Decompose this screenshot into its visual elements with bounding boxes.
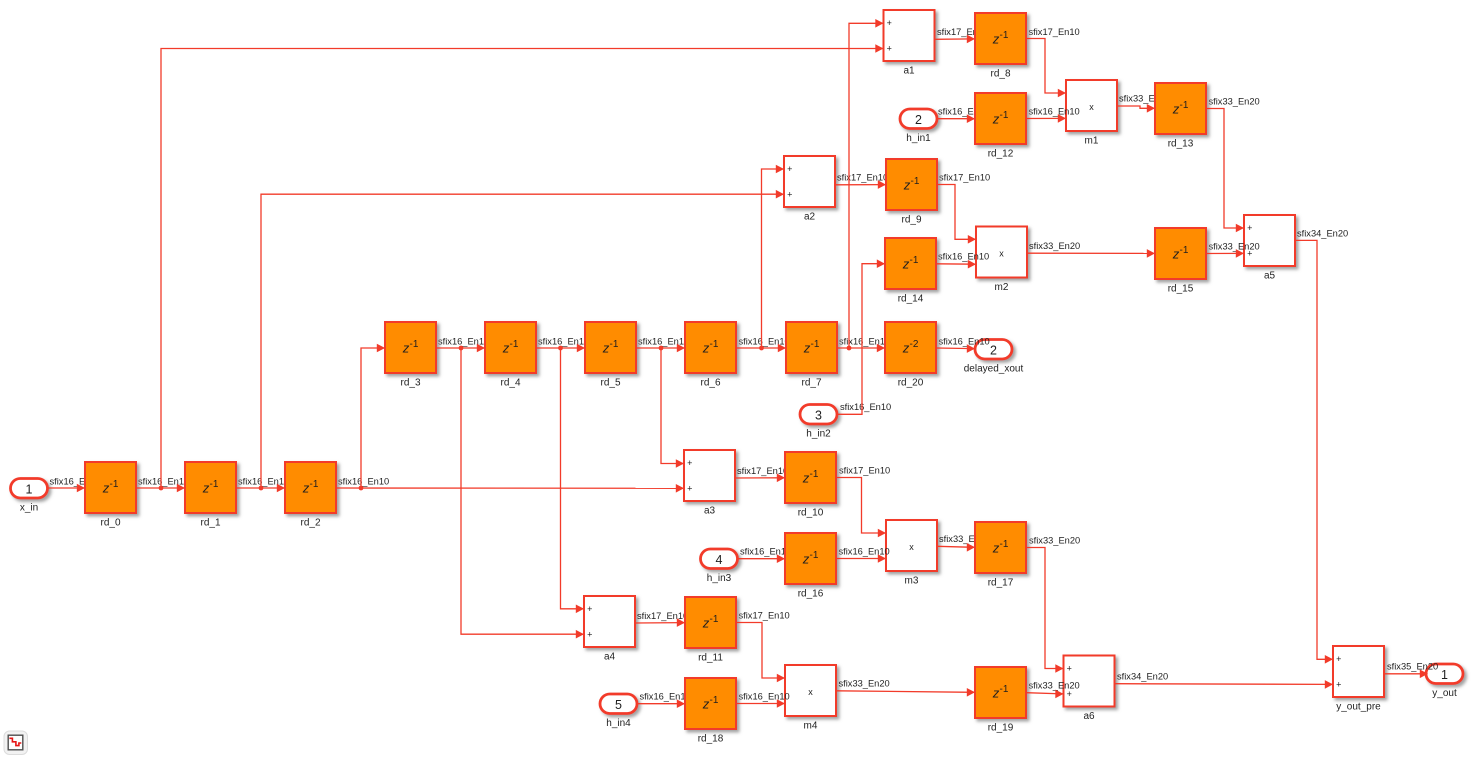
svg-text:z: z	[502, 340, 510, 355]
signal label sfix16_En10 (rd_12 out)	[1029, 107, 1080, 117]
svg-text:z: z	[1172, 101, 1180, 116]
wire x_in to rd_0	[48, 484, 86, 493]
sum block a6	[1064, 656, 1115, 723]
delay block rd_15 (z^-1)	[1155, 228, 1206, 295]
svg-text:-1: -1	[710, 339, 719, 350]
junction rd_4 out	[558, 346, 563, 351]
svg-text:sfix33_En20: sfix33_En20	[1209, 97, 1260, 107]
svg-text:sfix17_En10: sfix17_En10	[837, 173, 888, 183]
svg-text:-1: -1	[811, 339, 820, 350]
svg-text:sfix17_En10: sfix17_En10	[1029, 27, 1080, 37]
wire tap rd_0 out to a1 in2	[161, 44, 884, 488]
signal label sfix16_En10 (h_in1 out)	[938, 107, 989, 117]
signal label sfix33_En20 (rd_15 out)	[1209, 241, 1260, 251]
svg-text:sfix16_En10: sfix16_En10	[938, 252, 989, 262]
signal label sfix16_En10 (rd_0 out)	[138, 476, 189, 486]
svg-text:sfix16_En10: sfix16_En10	[238, 476, 289, 486]
sum block y_out_pre	[1333, 646, 1384, 713]
delay block rd_10 (z^-1)	[785, 452, 836, 519]
product block m1	[1066, 80, 1117, 147]
sum block a3	[684, 450, 735, 517]
wire rd_11 to m4 in1	[736, 623, 785, 683]
wire rd_20 to delayed_xout	[936, 344, 975, 353]
delay block rd_8 (z^-1)	[975, 13, 1026, 80]
junction rd_1 out	[259, 486, 264, 491]
svg-text:-1: -1	[1180, 245, 1189, 256]
junction rd_7 out	[847, 346, 852, 351]
svg-text:z: z	[702, 340, 710, 355]
wire tap rd_6 out to a2 in1	[762, 165, 785, 348]
svg-text:m3: m3	[905, 576, 919, 587]
sum block a2	[784, 156, 835, 223]
svg-text:sfix16_En10: sfix16_En10	[839, 546, 890, 556]
svg-text:sfix34_En20: sfix34_En20	[1297, 228, 1348, 238]
svg-text:m2: m2	[995, 282, 1009, 293]
wire m1 to rd_13	[1117, 104, 1155, 113]
wire tap rd_5 out to a3 in1	[661, 348, 684, 468]
svg-text:+: +	[1067, 689, 1072, 699]
svg-text:rd_5: rd_5	[600, 378, 620, 389]
wire rd_13 to a5 in1	[1206, 109, 1244, 233]
delay block rd_9 (z^-1)	[886, 159, 937, 226]
sample time legend button	[4, 731, 28, 755]
svg-text:5: 5	[615, 698, 622, 712]
output port 1 y_out	[1426, 664, 1463, 699]
wire a2 to rd_9	[835, 180, 886, 189]
svg-text:sfix16_En10: sfix16_En10	[939, 336, 990, 346]
signal label sfix33_En20 (m4 out)	[839, 678, 890, 688]
delay block rd_20 (z^-2)	[885, 322, 936, 389]
wire a4 to rd_11	[635, 618, 685, 627]
svg-text:z: z	[802, 551, 810, 566]
wire rd_18 to m4 in2	[736, 699, 785, 708]
svg-text:z: z	[202, 480, 210, 495]
product block m4	[785, 665, 836, 732]
delay block rd_1 (z^-1)	[185, 462, 236, 529]
svg-text:sfix35_En20: sfix35_En20	[1387, 662, 1438, 672]
svg-text:sfix16_En10: sfix16_En10	[839, 336, 890, 346]
svg-text:sfix17_En10: sfix17_En10	[739, 610, 790, 620]
wire rd_16 to m3 in2	[836, 554, 886, 563]
svg-text:sfix16_En10: sfix16_En10	[338, 476, 389, 486]
signal label sfix16_En10 (rd_16 out)	[839, 546, 890, 556]
svg-text:-1: -1	[1000, 110, 1009, 121]
wire tap rd_1 out to a2 in2	[261, 190, 784, 488]
delay block rd_16 (z^-1)	[785, 533, 836, 600]
signal label sfix17_En10 (rd_9 out)	[939, 172, 990, 182]
svg-text:z: z	[902, 256, 910, 271]
svg-text:rd_11: rd_11	[698, 653, 723, 664]
wire rd_14 to m2 in2	[936, 260, 976, 269]
svg-text:sfix33_En20: sfix33_En20	[1029, 535, 1080, 545]
svg-text:-1: -1	[911, 176, 920, 187]
wire rd_8 to m1 in1	[1026, 39, 1066, 98]
wire a5 to y_out_pre in1	[1295, 240, 1333, 663]
signal label sfix33_En20 (rd_19 out)	[1029, 680, 1080, 690]
delay block rd_12 (z^-1)	[975, 93, 1026, 160]
input port 1 x_in	[11, 479, 48, 514]
svg-text:z: z	[803, 340, 811, 355]
sum block a5	[1244, 215, 1295, 282]
signal label sfix16_En10 (rd_1 out)	[238, 476, 289, 486]
svg-text:rd_8: rd_8	[990, 69, 1010, 80]
svg-text:z: z	[903, 177, 911, 192]
wire m2 to rd_15	[1027, 249, 1155, 258]
svg-text:z: z	[992, 31, 1000, 46]
svg-text:-1: -1	[710, 614, 719, 625]
delay block rd_17 (z^-1)	[975, 522, 1026, 589]
svg-text:sfix17_En10: sfix17_En10	[939, 172, 990, 182]
signal label sfix33_En20 (m1 out)	[1119, 93, 1170, 103]
svg-text:sfix33_En20: sfix33_En20	[839, 678, 890, 688]
wire rd_17 to a6 in1	[1026, 548, 1064, 673]
signal label sfix16_En10 (rd_20 out)	[939, 336, 990, 346]
svg-text:+: +	[1067, 664, 1072, 674]
svg-text:-2: -2	[910, 339, 919, 350]
wire rd_12 to m1 in2	[1026, 114, 1066, 123]
wire h_in4 to rd_18	[638, 699, 686, 708]
svg-text:x: x	[999, 249, 1004, 259]
input port 3 h_in2	[800, 405, 837, 440]
signal label sfix16_En10 (h_in3 out)	[740, 547, 791, 557]
wire m4 to rd_19	[836, 688, 975, 697]
svg-text:a3: a3	[704, 506, 716, 517]
svg-text:rd_7: rd_7	[801, 378, 821, 389]
delay block rd_14 (z^-1)	[885, 238, 936, 305]
input port 4 h_in3	[701, 549, 738, 584]
wire a6 to y_out_pre in2	[1115, 680, 1334, 689]
svg-text:sfix33_En20: sfix33_En20	[1029, 680, 1080, 690]
svg-text:z: z	[702, 615, 710, 630]
delay block rd_6 (z^-1)	[685, 322, 736, 389]
sum block a4	[584, 596, 635, 663]
delay block rd_19 (z^-1)	[975, 667, 1026, 734]
svg-text:sfix16_En10: sfix16_En10	[138, 476, 189, 486]
svg-text:rd_0: rd_0	[100, 518, 120, 529]
svg-text:sfix17_En10: sfix17_En10	[839, 465, 890, 475]
wire rd_9 to m2 in1	[937, 185, 976, 244]
junction rd_2 out	[359, 486, 364, 491]
signal label sfix17_En10 (a4 out)	[637, 611, 688, 621]
wire rd_10 to m3 in1	[836, 478, 886, 538]
junction rd_3 out	[459, 346, 464, 351]
signal label sfix16_En10 (x_in out)	[50, 476, 101, 486]
svg-text:-1: -1	[1000, 539, 1009, 550]
wire rd_2 to a3 in2	[336, 484, 684, 493]
delay block rd_3 (z^-1)	[385, 322, 436, 389]
svg-text:h_in4: h_in4	[606, 718, 631, 729]
junction rd_6 out	[759, 346, 764, 351]
wire a1 to rd_8	[935, 35, 975, 44]
svg-text:+: +	[587, 604, 592, 614]
delay block rd_18 (z^-1)	[685, 678, 736, 745]
svg-text:rd_19: rd_19	[988, 723, 1014, 734]
svg-text:x: x	[909, 542, 914, 552]
svg-text:-1: -1	[710, 695, 719, 706]
wire h_in1 to rd_12	[938, 114, 976, 123]
svg-text:rd_6: rd_6	[700, 378, 720, 389]
svg-text:-1: -1	[410, 339, 419, 350]
svg-text:rd_3: rd_3	[400, 378, 420, 389]
svg-text:sfix16_En10: sfix16_En10	[739, 691, 790, 701]
signal label sfix16_En10 (rd_3 out)	[438, 336, 489, 346]
svg-text:-1: -1	[910, 255, 919, 266]
wire y_out_pre to y_out	[1384, 670, 1428, 679]
svg-text:+: +	[887, 44, 892, 54]
svg-text:rd_4: rd_4	[500, 378, 520, 389]
svg-text:z: z	[602, 340, 610, 355]
delay block rd_4 (z^-1)	[485, 322, 536, 389]
svg-text:sfix16_En10: sfix16_En10	[640, 692, 691, 702]
signal label sfix35_En20 (y_out_pre out)	[1387, 662, 1438, 672]
sum block a1	[884, 10, 935, 77]
wire rd_0 to rd_1	[136, 484, 185, 493]
svg-text:h_in2: h_in2	[806, 428, 831, 439]
wire tap rd_4 out to a4 in1	[561, 348, 585, 613]
svg-text:+: +	[887, 18, 892, 28]
wire rd_15 to a5 in2	[1206, 249, 1244, 258]
signal label sfix16_En10 (rd_18 out)	[739, 691, 790, 701]
delay block rd_13 (z^-1)	[1155, 83, 1206, 150]
wire rd_5 to rd_6	[636, 344, 685, 353]
svg-text:-1: -1	[1180, 100, 1189, 111]
svg-text:+: +	[1336, 680, 1341, 690]
svg-text:rd_1: rd_1	[200, 518, 220, 529]
signal label sfix17_En10 (rd_10 out)	[839, 465, 890, 475]
wire h_in3 to rd_16	[738, 554, 785, 563]
output port 2 delayed_xout	[964, 340, 1024, 375]
svg-text:-1: -1	[510, 339, 519, 350]
svg-text:1: 1	[26, 482, 33, 496]
delay block rd_11 (z^-1)	[685, 597, 736, 664]
wire tap rd_2 out to rd_3 in	[361, 344, 385, 488]
svg-text:z: z	[702, 696, 710, 711]
svg-text:sfix16_En10: sfix16_En10	[740, 547, 791, 557]
signal label sfix34_En20 (a5 out)	[1297, 228, 1348, 238]
svg-text:+: +	[587, 630, 592, 640]
svg-text:-1: -1	[310, 479, 319, 490]
svg-text:-1: -1	[1000, 30, 1009, 41]
svg-text:1: 1	[1441, 668, 1448, 682]
svg-text:a5: a5	[1264, 271, 1276, 282]
svg-text:rd_13: rd_13	[1168, 139, 1194, 150]
signal label sfix17_En10 (a1 out)	[937, 27, 988, 37]
svg-text:sfix16_En10: sfix16_En10	[538, 336, 589, 346]
svg-text:sfix16_En10: sfix16_En10	[1029, 107, 1080, 117]
svg-text:sfix16_En10: sfix16_En10	[438, 336, 489, 346]
svg-text:rd_15: rd_15	[1168, 284, 1194, 295]
junction rd_0 out	[159, 486, 164, 491]
svg-text:y_out_pre: y_out_pre	[1336, 702, 1381, 713]
svg-text:x: x	[808, 687, 813, 697]
svg-text:rd_16: rd_16	[798, 589, 824, 600]
svg-text:sfix16_En10: sfix16_En10	[739, 336, 790, 346]
svg-text:a2: a2	[804, 212, 816, 223]
wire h_in2 to rd_14	[838, 259, 886, 414]
svg-text:+: +	[1247, 223, 1252, 233]
svg-text:sfix34_En20: sfix34_En20	[1117, 672, 1168, 682]
svg-text:z: z	[302, 480, 310, 495]
svg-text:y_out: y_out	[1432, 688, 1457, 699]
signal label sfix16_En10 (rd_2 out)	[338, 476, 389, 486]
svg-text:-1: -1	[810, 550, 819, 561]
wire rd_7 to rd_20	[837, 344, 885, 353]
product block m2	[976, 227, 1027, 294]
signal label sfix17_En10 (rd_8 out)	[1029, 27, 1080, 37]
svg-text:z: z	[902, 340, 910, 355]
junction rd_5 out	[659, 346, 664, 351]
svg-text:+: +	[687, 484, 692, 494]
signal label sfix33_En20 (rd_13 out)	[1209, 97, 1260, 107]
delay block rd_7 (z^-1)	[786, 322, 837, 389]
svg-text:-1: -1	[810, 469, 819, 480]
svg-text:z: z	[402, 340, 410, 355]
wire rd_4 to rd_5	[536, 344, 585, 353]
wire tap rd_3 out to a4 in2	[461, 348, 584, 639]
svg-text:-1: -1	[210, 479, 219, 490]
svg-text:+: +	[687, 458, 692, 468]
svg-text:rd_2: rd_2	[300, 518, 320, 529]
signal label sfix16_En10 (h_in2 out)	[840, 402, 891, 412]
svg-text:+: +	[787, 164, 792, 174]
svg-text:a6: a6	[1083, 711, 1095, 722]
svg-text:sfix16_En10: sfix16_En10	[638, 336, 689, 346]
svg-text:rd_12: rd_12	[988, 149, 1014, 160]
svg-text:delayed_xout: delayed_xout	[964, 363, 1024, 374]
svg-text:h_in3: h_in3	[707, 573, 732, 584]
signal label sfix33_En20 (m2 out)	[1029, 241, 1080, 251]
signal label sfix17_En10 (a3 out)	[737, 466, 788, 476]
signal label sfix34_En20 (a6 out)	[1117, 672, 1168, 682]
signal label sfix33_En20 (m3 out)	[939, 534, 990, 544]
signal label sfix16_En10 (rd_5 out)	[638, 336, 689, 346]
svg-text:-1: -1	[610, 339, 619, 350]
product block m3	[886, 520, 937, 587]
svg-text:m4: m4	[804, 721, 818, 732]
signal label sfix16_En10 (rd_7 out)	[839, 336, 890, 346]
signal label sfix33_En20 (rd_17 out)	[1029, 535, 1080, 545]
svg-text:x: x	[1089, 102, 1094, 112]
signal label sfix16_En10 (rd_4 out)	[538, 336, 589, 346]
svg-text:+: +	[787, 190, 792, 200]
wire m3 to rd_17	[937, 543, 975, 552]
svg-text:4: 4	[716, 553, 723, 567]
svg-text:z: z	[992, 540, 1000, 555]
svg-text:-1: -1	[1000, 684, 1009, 695]
svg-text:rd_14: rd_14	[898, 294, 924, 305]
wire tap rd_7 out to a1 in1	[849, 19, 884, 348]
svg-text:h_in1: h_in1	[906, 133, 931, 144]
svg-text:z: z	[102, 480, 110, 495]
svg-text:+: +	[1336, 654, 1341, 664]
wire rd_6 to rd_7	[736, 344, 786, 353]
svg-text:m1: m1	[1085, 136, 1099, 147]
wire a3 to rd_10	[735, 474, 785, 483]
delay block rd_0 (z^-1)	[85, 462, 136, 529]
input port 5 h_in4	[600, 694, 637, 729]
svg-text:sfix33_En20: sfix33_En20	[1029, 241, 1080, 251]
svg-text:rd_18: rd_18	[698, 734, 724, 745]
signal label sfix16_En10 (h_in4 out)	[640, 692, 691, 702]
svg-text:z: z	[802, 470, 810, 485]
signal label sfix17_En10 (a2 out)	[837, 173, 888, 183]
svg-text:sfix33_En20: sfix33_En20	[1209, 241, 1260, 251]
svg-text:a4: a4	[604, 652, 616, 663]
svg-text:x_in: x_in	[20, 502, 38, 513]
svg-text:rd_17: rd_17	[988, 578, 1014, 589]
wire rd_1 to rd_2	[236, 484, 285, 493]
svg-text:sfix16_En10: sfix16_En10	[840, 402, 891, 412]
svg-text:a1: a1	[903, 66, 915, 77]
signal label sfix16_En10 (rd_14 out)	[938, 252, 989, 262]
svg-text:sfix17_En10: sfix17_En10	[637, 611, 688, 621]
input port 2 h_in1	[900, 109, 937, 144]
svg-text:-1: -1	[110, 479, 119, 490]
svg-text:2: 2	[990, 343, 997, 357]
svg-text:z: z	[992, 111, 1000, 126]
wire rd_3 to rd_4	[436, 344, 485, 353]
svg-text:2: 2	[915, 113, 922, 127]
signal label sfix17_En10 (rd_11 out)	[739, 610, 790, 620]
svg-text:z: z	[992, 685, 1000, 700]
svg-text:rd_20: rd_20	[898, 378, 924, 389]
signal label sfix16_En10 (rd_6 out)	[739, 336, 790, 346]
delay block rd_2 (z^-1)	[285, 462, 336, 529]
svg-text:z: z	[1172, 246, 1180, 261]
svg-text:rd_9: rd_9	[901, 215, 921, 226]
svg-text:3: 3	[815, 408, 822, 422]
wire rd_19 to a6 in2	[1026, 690, 1064, 699]
svg-text:rd_10: rd_10	[798, 508, 824, 519]
svg-text:sfix17_En10: sfix17_En10	[737, 466, 788, 476]
delay block rd_5 (z^-1)	[585, 322, 636, 389]
